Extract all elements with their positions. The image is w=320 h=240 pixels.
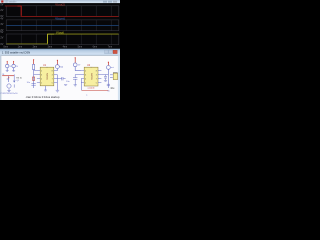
ground (C2) bbox=[64, 85, 67, 86]
svg-text:5: 5 bbox=[52, 82, 53, 84]
svg-text:0ms: 0ms bbox=[3, 46, 8, 49]
connector J1 (small yellow) bbox=[110, 72, 118, 79]
svg-text:2ms: 2ms bbox=[33, 46, 38, 49]
svg-text:4V: 4V bbox=[0, 17, 3, 20]
resistor R1 bbox=[33, 64, 35, 69]
titlebar minimize button bbox=[105, 50, 109, 53]
wire R1 to bus bbox=[33, 70, 35, 88]
svg-text:RL: RL bbox=[2, 74, 4, 76]
svg-text:7: 7 bbox=[96, 78, 97, 80]
pane 1 gridlines bbox=[21, 6, 111, 16]
voltage source V1 bbox=[6, 61, 9, 71]
pane 2 gridlines bbox=[21, 20, 111, 30]
svg-text:3: 3 bbox=[96, 74, 97, 76]
wire out bus bbox=[107, 75, 109, 88]
ground (U1 bus) bbox=[56, 90, 59, 92]
trace V(cont) blue bbox=[6, 25, 118, 27]
svg-text:6: 6 bbox=[41, 74, 42, 76]
ground (V2) bbox=[12, 70, 15, 73]
wire bottom net bbox=[82, 89, 109, 91]
IC U1 pin numbers bbox=[41, 70, 53, 84]
svg-text:astable: astable bbox=[88, 87, 96, 90]
bottom-left red wire bbox=[2, 75, 14, 77]
trace V(out) bright step bbox=[48, 34, 54, 43]
ground (C3) bbox=[74, 85, 77, 87]
svg-text:5V: 5V bbox=[0, 3, 3, 6]
voltage source V4 bbox=[7, 84, 11, 88]
capacitor C5 bbox=[107, 84, 110, 86]
svg-text:6: 6 bbox=[85, 74, 86, 76]
resistor R2 bbox=[33, 77, 35, 80]
voltage source V3 (VCC) bbox=[56, 60, 60, 71]
probe arrow bbox=[13, 74, 15, 87]
svg-text:7ms: 7ms bbox=[108, 46, 113, 49]
svg-text:1: 1 bbox=[85, 82, 86, 84]
svg-text:NE555: NE555 bbox=[46, 73, 48, 80]
svg-text:3V: 3V bbox=[0, 23, 3, 26]
svg-text:5ms: 5ms bbox=[78, 46, 83, 49]
app icon (red) bbox=[1, 0, 3, 2]
canvas left border bbox=[0, 56, 1, 100]
pane 3 axis labels bbox=[0, 31, 3, 46]
svg-text:4: 4 bbox=[85, 78, 86, 80]
IC U2 body (555) bbox=[84, 67, 98, 86]
svg-text:4ms: 4ms bbox=[63, 46, 68, 49]
svg-text:1: 1 bbox=[41, 82, 42, 84]
voltage source V5 bbox=[73, 57, 81, 70]
svg-text:6ms: 6ms bbox=[93, 46, 98, 49]
schematic canvas bbox=[0, 56, 120, 100]
svg-text:C5: C5 bbox=[107, 91, 109, 93]
ground (V4) bbox=[7, 88, 10, 92]
svg-text:.tran 0 10ms 0 10us startup: .tran 0 10ms 0 10us startup bbox=[25, 95, 59, 99]
svg-text:NE555: NE555 bbox=[90, 73, 92, 80]
trace V(out2) bright step bbox=[18, 6, 22, 16]
trace V(out) yellow bbox=[6, 34, 118, 44]
svg-text:7: 7 bbox=[52, 78, 53, 80]
svg-text:2: 2 bbox=[41, 70, 42, 72]
svg-text:2V: 2V bbox=[0, 37, 3, 40]
IC U1 body (555) bbox=[40, 67, 54, 86]
ground (U1 gnd) bbox=[44, 90, 47, 91]
svg-text:5: 5 bbox=[96, 82, 97, 84]
schematic window title bar bbox=[0, 49, 120, 56]
titlebar maximize button bbox=[109, 50, 113, 53]
pane 3 gridlines bbox=[21, 34, 111, 44]
ground (V1) bbox=[6, 70, 9, 73]
svg-text:1ms: 1ms bbox=[18, 46, 23, 49]
capacitor C4 bbox=[101, 75, 108, 81]
IC U2 pin numbers bbox=[85, 70, 97, 84]
ground (C4) bbox=[104, 80, 107, 81]
voltage source V2 bbox=[12, 61, 15, 71]
IC U1 pin stubs right bbox=[54, 71, 58, 83]
wire U2 left bus bbox=[81, 79, 83, 91]
node VCC1 wire bbox=[33, 59, 34, 64]
pane 3 plot box bbox=[6, 34, 119, 45]
waveform viewer black background bbox=[0, 3, 120, 48]
svg-text:1. 555 astable mul.DSN: 1. 555 astable mul.DSN bbox=[2, 51, 30, 55]
svg-text:out: out bbox=[111, 66, 114, 69]
svg-text:10n: 10n bbox=[27, 82, 30, 84]
pane 1 axis labels bbox=[0, 3, 3, 18]
svg-text:5V: 5V bbox=[0, 31, 3, 34]
capacitor C1 bbox=[31, 84, 35, 86]
svg-text:POINTS=10 R=50: POINTS=10 R=50 bbox=[1, 93, 19, 95]
canvas right scrollbar bbox=[118, 56, 120, 100]
IC U2 pin stubs right bbox=[98, 71, 101, 83]
svg-text:4: 4 bbox=[41, 78, 42, 80]
pane 1 plot box bbox=[6, 6, 119, 17]
time axis labels bbox=[3, 46, 113, 49]
IC U2 pin stubs left bbox=[81, 71, 84, 83]
svg-text:2V: 2V bbox=[0, 9, 3, 12]
capacitor C3 bbox=[73, 75, 81, 85]
pane 2 axis labels bbox=[0, 17, 3, 32]
svg-text:8: 8 bbox=[96, 70, 97, 72]
titlebar close button bbox=[113, 50, 117, 53]
trace V(out2) red bbox=[5, 6, 119, 17]
main window title bar bbox=[0, 0, 120, 3]
IC U1 pin stubs left bbox=[34, 71, 41, 83]
capacitor C2 bbox=[57, 77, 65, 80]
svg-text:3: 3 bbox=[52, 74, 53, 76]
wire U1 right bus bbox=[56, 75, 58, 91]
svg-text:2: 2 bbox=[85, 70, 86, 72]
wire U1 gnd down bbox=[45, 86, 47, 90]
svg-text:V(cont): V(cont) bbox=[55, 17, 65, 21]
window buttons (faint) bbox=[103, 1, 107, 3]
voltage source V6 bbox=[107, 62, 111, 75]
transistor Q1 bbox=[7, 76, 10, 82]
svg-text:555 astable: 555 astable bbox=[5, 1, 18, 4]
svg-text:V(out2): V(out2) bbox=[55, 3, 65, 7]
pane 2 plot box bbox=[6, 20, 119, 31]
svg-text:3ms: 3ms bbox=[48, 46, 53, 49]
svg-text:8: 8 bbox=[52, 70, 53, 72]
